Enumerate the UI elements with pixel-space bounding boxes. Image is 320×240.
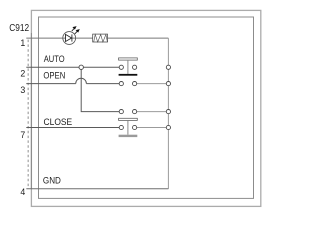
wire row4 right contact to bus [135,127,169,129]
resistor R1 body [93,34,108,42]
connector C912 dashed housing line [27,40,29,189]
svg-text:7: 7 [20,130,25,140]
svg-text:4: 4 [20,187,25,197]
svg-text:CLOSE: CLOSE [44,117,73,127]
svg-text:C912: C912 [9,23,29,34]
pushbutton S1 stem [127,60,129,74]
contact row4 left [119,125,123,129]
wire row2 right contact to bus [135,83,169,85]
wire GND pin4 [26,188,168,190]
LED D1 cathode bar [71,34,73,41]
svg-text:OPEN: OPEN [43,71,65,81]
svg-text:2: 2 [20,69,25,79]
connector C912 body line [30,33,32,189]
pushbutton S2 stem [127,120,129,134]
svg-text:1: 1 [20,38,25,48]
bus node row1 [166,65,170,69]
contact row1 left [119,65,123,69]
wire bus vertical [167,38,169,189]
contact row3 right [133,110,137,114]
contact row2 right [133,82,137,86]
svg-text:AUTO: AUTO [44,54,65,64]
pushbutton S2 (CLOSE) actuator bar [119,118,138,120]
outer enclosure box [31,10,260,206]
resistor R1 zigzag [94,35,108,43]
wire OPEN right segment to switch [86,83,119,85]
pushbutton S2 bridge bar (gray) [119,135,138,137]
wire from AUTO node down and right to row3 contact [81,67,119,111]
svg-text:GND: GND [43,176,61,186]
contact row1 right [133,65,137,69]
wire pin1 to LED/resistor/bus corner [26,37,168,39]
wire AUTO pin2 [26,66,119,68]
wire CLOSE pin7 [26,127,119,129]
contact row3 left [119,110,123,114]
node on AUTO wire [79,65,83,69]
bus node row2 [166,82,170,86]
wire OPEN hop over vertical [76,78,87,83]
bus node row3 [166,110,170,114]
pushbutton S1 bridge bar (black) [119,74,138,76]
LED D1 emission arrow 2 [75,30,79,34]
contact row4 right [133,125,137,129]
contact row2 left [119,82,123,86]
pushbutton S1 (AUTO) actuator bar [119,58,138,60]
inner enclosure box [39,17,254,198]
LED D1 circle [63,32,76,45]
wire OPEN pin3 left segment [26,83,75,85]
wire row3 right contact to bus [135,111,169,113]
LED D1 emission arrow 1 [72,27,76,31]
LED D1 triangle [66,34,72,41]
bus node row4 [166,125,170,129]
svg-text:3: 3 [20,85,25,95]
